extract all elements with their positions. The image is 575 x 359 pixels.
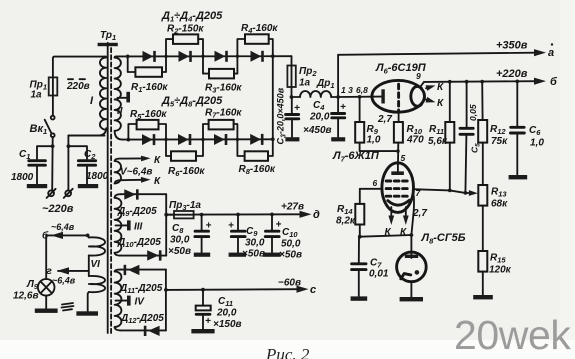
svg-text:+: + bbox=[294, 103, 300, 114]
label I bbox=[90, 95, 94, 107]
svg-text:0,01: 0,01 bbox=[369, 269, 389, 280]
chassis scribble bbox=[62, 303, 74, 311]
diode D2 bbox=[179, 51, 192, 62]
resistor R1 bbox=[128, 56, 166, 76]
rail +350v bbox=[338, 49, 546, 56]
wire terminal b bbox=[46, 232, 89, 279]
ground L8 bbox=[400, 297, 423, 301]
label pin 9 bbox=[416, 71, 421, 81]
svg-text:50,0: 50,0 bbox=[281, 239, 301, 250]
svg-text:+: + bbox=[205, 316, 211, 327]
rail -60v bbox=[166, 286, 309, 293]
svg-text:+: + bbox=[206, 221, 212, 232]
svg-text:6: 6 bbox=[373, 178, 378, 188]
rail +27v bbox=[199, 211, 312, 218]
svg-text:+27в: +27в bbox=[281, 202, 304, 213]
wire D11 D12 output bbox=[164, 270, 168, 331]
fuse Pr1 bbox=[49, 57, 106, 116]
label 0,05 rotated bbox=[468, 104, 478, 121]
tap winding IV bbox=[116, 296, 146, 308]
svg-text:R4-160к: R4-160к bbox=[241, 23, 278, 35]
ground C3 bbox=[285, 137, 299, 141]
label ~220v bbox=[42, 203, 74, 215]
label 2,7 L7 bbox=[412, 208, 427, 219]
svg-text:R3-160к: R3-160к bbox=[205, 83, 242, 95]
resistor R6 bbox=[166, 140, 203, 161]
label C6 1,0 bbox=[529, 125, 544, 149]
winding IV bbox=[115, 270, 122, 331]
svg-text:1а: 1а bbox=[299, 78, 311, 89]
svg-text:1,0: 1,0 bbox=[530, 138, 544, 149]
svg-text:1,0: 1,0 bbox=[367, 135, 381, 146]
svg-text:К: К bbox=[154, 176, 161, 187]
label VI bbox=[91, 259, 101, 270]
switch Vk1 bbox=[45, 116, 55, 147]
label pin 7 bbox=[416, 188, 422, 198]
svg-text:III: III bbox=[134, 222, 143, 233]
label C10 values bbox=[279, 227, 302, 261]
svg-text:Д11-Д205: Д11-Д205 bbox=[119, 283, 163, 295]
svg-text:1800: 1800 bbox=[11, 172, 34, 183]
label C5 rotated bbox=[470, 143, 482, 153]
diode D6 bbox=[178, 134, 191, 145]
rail +220v bbox=[424, 78, 546, 85]
svg-text:1800: 1800 bbox=[86, 171, 109, 182]
svg-text:+: + bbox=[276, 220, 282, 231]
resistor R10 bbox=[394, 111, 403, 163]
wiper arrow R13 bbox=[465, 190, 477, 196]
svg-text:б: б bbox=[42, 230, 49, 242]
label D10-D205 bbox=[117, 237, 161, 249]
label R3 bbox=[205, 83, 242, 95]
capacitor C11 bbox=[196, 290, 211, 329]
resistor R9 bbox=[355, 97, 400, 153]
label C3 rotated bbox=[276, 87, 288, 144]
label L6-6S19P bbox=[375, 62, 427, 75]
choke Dr1 bbox=[290, 91, 339, 99]
wire terminal g bbox=[57, 267, 89, 274]
svg-text:II: II bbox=[117, 106, 123, 117]
capacitor C9 bbox=[228, 215, 245, 253]
tube L6 6S19P bbox=[372, 80, 425, 112]
winding V heater bbox=[115, 156, 151, 184]
svg-text:+: + bbox=[340, 102, 346, 113]
label C1 1800 bbox=[11, 149, 34, 183]
svg-text:470: 470 bbox=[406, 135, 424, 146]
label V ~6,4v bbox=[120, 167, 152, 178]
label +27v bbox=[281, 202, 304, 213]
label C4 values bbox=[303, 100, 332, 136]
label D9-D205 bbox=[117, 206, 157, 218]
svg-text:К: К bbox=[437, 82, 444, 93]
fuse Pr2 bbox=[287, 56, 295, 97]
label D11-D205 bbox=[119, 283, 163, 295]
svg-text:+220в: +220в bbox=[496, 68, 528, 80]
svg-text:2,7: 2,7 bbox=[377, 114, 392, 125]
label R15 120k bbox=[489, 253, 512, 276]
diode D1 bbox=[143, 51, 156, 62]
label 2,7 L6 bbox=[377, 114, 392, 125]
ground C10 bbox=[263, 253, 281, 257]
svg-text:×150в: ×150в bbox=[213, 319, 242, 330]
label C8 values bbox=[168, 223, 191, 257]
ground C9 bbox=[229, 253, 246, 257]
svg-text:20,0: 20,0 bbox=[216, 308, 237, 319]
label L7-6Zh1P bbox=[332, 150, 380, 163]
svg-text:Д12-Д205: Д12-Д205 bbox=[120, 313, 164, 325]
terminal a bbox=[548, 43, 554, 59]
label C7 0,01 bbox=[369, 258, 389, 280]
svg-text:8,2к: 8,2к bbox=[336, 216, 356, 227]
wire bridge2 bus bbox=[123, 137, 275, 141]
diode D3 bbox=[215, 51, 228, 62]
winding III bbox=[115, 194, 122, 255]
svg-text:R6-160к: R6-160к bbox=[168, 166, 205, 178]
svg-text:~6,4в: ~6,4в bbox=[51, 222, 75, 232]
svg-text:×450в: ×450в bbox=[303, 125, 332, 136]
label R14 8,2k bbox=[336, 204, 356, 227]
label +220v bbox=[496, 68, 528, 80]
label K heater bottom bbox=[154, 176, 161, 187]
label pin 5 bbox=[401, 153, 406, 163]
label D5-D8 D205 bbox=[161, 95, 223, 108]
wire mains left lower bbox=[51, 144, 55, 190]
svg-text:К: К bbox=[154, 155, 161, 166]
svg-text:220в: 220в bbox=[66, 81, 90, 92]
svg-text:1 3: 1 3 bbox=[341, 85, 353, 95]
svg-text:30,0: 30,0 bbox=[245, 238, 265, 249]
svg-text:5: 5 bbox=[401, 153, 406, 163]
wire plate L7 to R13 bbox=[414, 189, 468, 195]
ground C8 bbox=[194, 253, 210, 257]
svg-text:0,05: 0,05 bbox=[468, 104, 478, 121]
svg-text:Д9-Д205: Д9-Д205 bbox=[117, 206, 157, 218]
svg-text:−60в: −60в bbox=[278, 278, 301, 289]
label b ~6,4v bbox=[42, 222, 75, 242]
heater lead left L7 bbox=[385, 207, 395, 238]
svg-text:R1-160к: R1-160к bbox=[131, 82, 168, 94]
svg-text:Д10-Д205: Д10-Д205 bbox=[117, 237, 161, 249]
label R1 bbox=[131, 82, 168, 94]
winding II (secondary HV) bbox=[115, 56, 123, 139]
ground R15 bbox=[473, 295, 493, 299]
label II bbox=[117, 106, 123, 117]
capacitor C6 bbox=[511, 81, 525, 174]
diode D4 bbox=[251, 51, 264, 62]
svg-text:К: К bbox=[437, 98, 444, 109]
label K heater top bbox=[154, 155, 161, 166]
label R7 bbox=[205, 108, 242, 120]
svg-text:IV: IV bbox=[135, 297, 146, 308]
svg-text:1а: 1а bbox=[31, 90, 43, 101]
ground C2 bbox=[78, 184, 98, 188]
label R10 470 bbox=[406, 124, 424, 146]
svg-text:~6,4в: ~6,4в bbox=[52, 276, 76, 286]
heater arrow K upper L6 bbox=[426, 82, 444, 93]
svg-text:120к: 120к bbox=[489, 265, 512, 276]
svg-text:30,0: 30,0 bbox=[170, 235, 190, 246]
label Pr3-1a bbox=[169, 200, 201, 212]
transformer Tr1 top bar bbox=[98, 43, 118, 46]
wire plate L6 bbox=[338, 95, 382, 99]
ground C11 bbox=[191, 329, 214, 333]
label R6 bbox=[168, 166, 205, 178]
ground C1 bbox=[27, 184, 47, 188]
wire bridge link bbox=[272, 56, 274, 139]
terminal b2 bbox=[550, 76, 558, 88]
svg-text:R8-160к: R8-160к bbox=[239, 164, 276, 176]
label pins 1 3 6,8 bbox=[341, 85, 368, 95]
ground C4 bbox=[331, 137, 345, 141]
watermark 20wek bbox=[454, 312, 571, 358]
label R9 1,0 bbox=[367, 124, 381, 146]
ground C7 bbox=[351, 296, 368, 300]
label R4 bbox=[241, 23, 278, 35]
ground lamp bbox=[35, 309, 58, 313]
svg-text:Л7-6Ж1П: Л7-6Ж1П bbox=[332, 150, 380, 163]
label D1-D4 D205 bbox=[161, 10, 223, 23]
label pin 6 bbox=[373, 178, 378, 188]
label +350v bbox=[496, 40, 528, 52]
svg-text:д: д bbox=[313, 209, 320, 221]
resistor R3 bbox=[203, 56, 237, 78]
winding I (primary) bbox=[68, 57, 106, 136]
capacitor C7 bbox=[352, 237, 366, 296]
capacitor C2 bbox=[68, 146, 95, 183]
connector pin left bbox=[47, 189, 56, 198]
label R11 5,6k bbox=[428, 124, 448, 147]
capacitor C8 bbox=[195, 215, 212, 253]
label C2 1800 bbox=[84, 149, 109, 182]
label R5 bbox=[130, 109, 167, 121]
label -60v bbox=[278, 278, 301, 289]
diode D9 bbox=[121, 189, 166, 199]
label g ~6,4v bbox=[47, 266, 76, 286]
wire grid L7 to R14 bbox=[360, 189, 382, 204]
resistor R12 bbox=[478, 82, 487, 185]
svg-text:+350в: +350в bbox=[496, 40, 528, 52]
label Vk1 bbox=[30, 123, 48, 136]
ground C6 bbox=[509, 175, 528, 179]
svg-text:VI: VI bbox=[91, 259, 101, 270]
lamp L9 bbox=[38, 279, 55, 308]
resistor R8 bbox=[237, 139, 272, 161]
heater arrow K lower L6 bbox=[426, 97, 444, 109]
resistor R2 bbox=[166, 34, 203, 56]
svg-text:R5-160к: R5-160к bbox=[130, 109, 167, 121]
resistor R4 bbox=[237, 34, 272, 56]
capacitor C1 bbox=[29, 146, 53, 183]
svg-text:5,6к: 5,6к bbox=[428, 136, 448, 147]
svg-text:×50в: ×50в bbox=[168, 246, 191, 257]
capacitor C4 bbox=[332, 55, 346, 137]
label Tr1 bbox=[100, 30, 116, 42]
svg-text:×50в: ×50в bbox=[279, 250, 302, 261]
capacitor C5 bbox=[460, 82, 473, 193]
label Pr2 1a bbox=[299, 66, 317, 89]
svg-text:Рис. 2: Рис. 2 bbox=[265, 345, 310, 359]
caption Ris 2 bbox=[265, 345, 310, 359]
label D12-D205 bbox=[120, 313, 164, 325]
svg-text:Л8-СГ5Б: Л8-СГ5Б bbox=[421, 232, 466, 245]
wire R14 to L8 bbox=[360, 235, 412, 237]
label R2 bbox=[167, 24, 204, 36]
diode D8 bbox=[250, 134, 263, 145]
svg-text:R7-160к: R7-160к bbox=[205, 108, 242, 120]
diode D11 bbox=[121, 265, 166, 275]
winding VI (left side) bbox=[88, 235, 105, 311]
svg-text:×50в: ×50в bbox=[242, 249, 265, 260]
terminal d bbox=[313, 209, 320, 221]
capacitor C10 bbox=[265, 214, 281, 252]
tube L7 6Zh1P bbox=[382, 163, 414, 213]
svg-text:б: б bbox=[550, 76, 558, 88]
resistor R11 bbox=[445, 82, 454, 191]
resistor R13 bbox=[478, 185, 487, 251]
svg-text:а: а bbox=[548, 47, 554, 59]
wire bridge1 bus bbox=[122, 54, 292, 58]
label L8-SG5B bbox=[421, 232, 466, 245]
label R8 bbox=[239, 164, 276, 176]
tube L8 SG5B bbox=[397, 252, 427, 297]
svg-text:68к: 68к bbox=[491, 199, 508, 210]
heater lead right L7 bbox=[400, 207, 409, 238]
label R12 75k bbox=[490, 124, 508, 147]
diode D7 bbox=[214, 134, 227, 145]
resistor R15 bbox=[478, 251, 487, 295]
svg-text:6,8: 6,8 bbox=[356, 85, 368, 95]
svg-text:9: 9 bbox=[416, 71, 421, 81]
svg-text:V~6,4в: V~6,4в bbox=[120, 167, 152, 178]
svg-text:+: + bbox=[228, 221, 234, 232]
svg-text:К: К bbox=[400, 227, 407, 238]
label C9 values bbox=[242, 226, 265, 260]
svg-text:20wek: 20wek bbox=[454, 312, 571, 358]
label Pr1 1a bbox=[30, 80, 47, 101]
tap winding III bbox=[116, 220, 143, 232]
wire mains right bbox=[67, 136, 105, 190]
label R13 68k bbox=[491, 187, 508, 210]
ground winding VI bbox=[76, 311, 98, 315]
diode D10 bbox=[121, 250, 166, 260]
svg-text:20,0: 20,0 bbox=[309, 112, 330, 123]
shield tap winding II bbox=[118, 92, 131, 103]
label L9 12,6v bbox=[13, 279, 39, 302]
fuse Pr3 bbox=[168, 211, 199, 218]
label C11 values bbox=[213, 296, 242, 330]
wire D9 D10 output bbox=[164, 194, 174, 255]
svg-text:с: с bbox=[310, 284, 316, 296]
svg-text:12,6в: 12,6в bbox=[13, 291, 39, 302]
svg-text:75к: 75к bbox=[491, 136, 508, 147]
connector pin right bbox=[64, 189, 73, 198]
terminal c bbox=[310, 284, 316, 296]
label 220v with overbars bbox=[66, 79, 90, 92]
svg-text:~220в: ~220в bbox=[42, 203, 74, 215]
resistor R14 bbox=[355, 204, 364, 239]
diode D12 bbox=[121, 326, 166, 336]
resistor R7 bbox=[203, 120, 237, 140]
resistor R5 bbox=[128, 120, 166, 140]
svg-text:R2-150к: R2-150к bbox=[167, 24, 204, 36]
label Dr1 bbox=[316, 78, 335, 90]
diode D5 bbox=[142, 134, 155, 145]
transformer core bbox=[108, 46, 111, 333]
wire cathode L7 down bbox=[410, 194, 415, 253]
capacitor C3 bbox=[286, 97, 300, 137]
